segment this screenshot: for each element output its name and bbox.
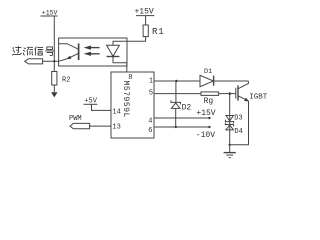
wire pin 6 [154, 126, 209, 128]
svg-text:R1: R1 [152, 27, 164, 37]
junction gate node [229, 92, 232, 95]
svg-text:13: 13 [112, 123, 120, 131]
signal flag PWM [70, 123, 90, 128]
wire LED cathode to pin 8 [113, 57, 127, 73]
resistor R2 [52, 72, 57, 86]
svg-text:Rg: Rg [204, 97, 214, 106]
down arrow below R2 [51, 92, 57, 97]
wire PWM to pin 13 [90, 125, 111, 127]
zener D4 [225, 123, 233, 127]
wire +15V left down to node A [53, 16, 55, 72]
phototransistor base bar [78, 43, 80, 60]
LED inside optocoupler [112, 41, 114, 45]
resistor Rg [201, 92, 219, 96]
optocoupler box [59, 38, 127, 66]
light arrow lower [91, 53, 100, 55]
wire Rg to gate [219, 93, 236, 95]
svg-text:M57959L: M57959L [121, 81, 130, 118]
light arrow upper [91, 47, 100, 49]
junction pin1/D2 [175, 80, 177, 82]
wire flag to optocoupler [43, 60, 59, 62]
svg-text:14: 14 [112, 108, 120, 116]
svg-text:6: 6 [148, 127, 152, 135]
svg-text:D1: D1 [204, 68, 212, 76]
svg-text:-10V: -10V [196, 131, 215, 140]
svg-text:D4: D4 [234, 128, 242, 136]
diode D1 [200, 75, 213, 86]
wire IGBT emitter down [230, 101, 249, 145]
resistor R1 [143, 25, 148, 37]
signal flag 过流信号 [25, 59, 43, 64]
wire R1 to LED anode [113, 37, 146, 46]
wire +15V to R1 [145, 16, 147, 25]
transistor IGBT [235, 88, 237, 99]
wire +5V to pin 14 [92, 104, 112, 110]
wire pin 5 [154, 93, 201, 95]
svg-text:5: 5 [149, 89, 153, 97]
wire pin 4 [154, 117, 209, 119]
junction node A [53, 60, 55, 62]
svg-text:IGBT: IGBT [249, 94, 268, 102]
svg-text:D2: D2 [182, 103, 192, 112]
svg-text:4: 4 [148, 118, 152, 126]
wire pin 1 [154, 80, 200, 82]
label 过流信号 (overcurrent signal) [12, 47, 54, 56]
ground [224, 152, 236, 154]
svg-text:PWM: PWM [69, 115, 82, 123]
IC M57959L box [111, 72, 154, 138]
wire D1 to IGBT collector [214, 80, 249, 82]
svg-text:D3: D3 [234, 115, 242, 123]
svg-text:1: 1 [149, 78, 153, 86]
phototransistor collector [59, 44, 79, 50]
zener D3 [226, 116, 234, 121]
svg-text:+15V: +15V [42, 9, 58, 16]
svg-text:+15V: +15V [196, 109, 215, 118]
zener D2 [175, 81, 177, 102]
wire gate node to D3/D4 chain [229, 94, 231, 153]
svg-text:R2: R2 [62, 77, 70, 85]
svg-text:8: 8 [128, 74, 132, 82]
phototransistor emitter [59, 53, 79, 61]
